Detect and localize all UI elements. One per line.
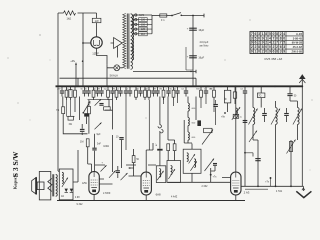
capacitor xyxy=(129,86,131,90)
wire xyxy=(88,147,92,172)
resistor xyxy=(66,86,68,90)
resistor xyxy=(163,86,165,90)
capacitor xyxy=(168,86,170,90)
svg-text:F 1: F 1 xyxy=(161,19,165,22)
svg-text:2: 2 xyxy=(258,41,260,45)
svg-text:3: 3 xyxy=(258,32,260,36)
wire xyxy=(168,97,175,141)
svg-text:1: 1 xyxy=(254,50,256,54)
wire speaker loop xyxy=(39,172,51,200)
svg-text:ZW·2·85: ZW·2·85 xyxy=(292,50,303,54)
svg-text:9: 9 xyxy=(262,41,264,45)
coil L4 tuning xyxy=(276,108,278,125)
capacitor xyxy=(112,86,114,90)
tube V4 output xyxy=(231,172,241,195)
wire xyxy=(105,97,113,130)
svg-text:110: 110 xyxy=(141,33,146,36)
tube V2 AF xyxy=(89,172,99,195)
svg-text:7Ω: 7Ω xyxy=(56,109,59,112)
node xyxy=(135,85,137,87)
resistor R15 xyxy=(233,114,239,118)
wire xyxy=(88,100,90,134)
wire xyxy=(94,195,236,201)
capacitor xyxy=(185,86,187,90)
wire xyxy=(113,135,122,172)
svg-text:4: 4 xyxy=(283,32,285,36)
coil L1a xyxy=(188,103,189,111)
capacitor C12 xyxy=(213,163,217,164)
trimmer xyxy=(95,123,102,130)
svg-text:2: 2 xyxy=(262,50,264,54)
capacitor C2 16uF xyxy=(189,55,197,56)
wire xyxy=(241,185,304,187)
resistor xyxy=(135,86,137,90)
wire xyxy=(126,97,149,151)
node xyxy=(270,177,272,179)
trimmer xyxy=(293,109,302,125)
svg-text:2 A3: 2 A3 xyxy=(244,190,250,194)
svg-text:9: 9 xyxy=(251,41,253,45)
svg-text:SKALA: SKALA xyxy=(110,73,119,77)
svg-text:8: 8 xyxy=(280,36,282,40)
speck xyxy=(8,58,9,59)
svg-text:5nF: 5nF xyxy=(97,143,102,145)
capacitor xyxy=(120,86,122,90)
capacitor xyxy=(61,86,63,90)
svg-text:2: 2 xyxy=(276,45,278,49)
svg-text:9: 9 xyxy=(269,50,271,54)
resistor xyxy=(148,86,150,90)
capacitor C17 xyxy=(243,120,248,121)
wire xyxy=(75,97,80,121)
node xyxy=(111,85,113,87)
capacitor C14 xyxy=(262,113,267,114)
node xyxy=(75,85,77,87)
svg-text:S 3 S/W: S 3 S/W xyxy=(11,151,20,177)
svg-text:3: 3 xyxy=(283,45,285,49)
resistor R8 xyxy=(132,156,135,163)
svg-text:9: 9 xyxy=(283,50,285,54)
svg-text:7: 7 xyxy=(276,41,278,45)
node xyxy=(159,85,161,87)
node xyxy=(220,85,222,87)
capacitor xyxy=(153,86,155,90)
svg-text:6: 6 xyxy=(280,45,282,49)
resistor xyxy=(70,86,72,90)
IF transformer Tr1 xyxy=(156,166,166,183)
bus main HT rail xyxy=(56,85,304,87)
capacitor C13 xyxy=(287,93,292,94)
resistor xyxy=(173,86,175,90)
svg-text:1Ω: 1Ω xyxy=(61,196,64,198)
svg-text:1kΩ: 1kΩ xyxy=(67,17,72,21)
tube V3 mixer xyxy=(141,172,151,195)
capacitor C16 xyxy=(255,158,260,159)
node xyxy=(257,85,259,87)
svg-text:2: 2 xyxy=(280,32,282,36)
wire xyxy=(94,151,96,172)
svg-text:RV6 358 +4Z: RV6 358 +4Z xyxy=(265,57,283,61)
svg-text:5: 5 xyxy=(254,36,256,40)
svg-text:0: 0 xyxy=(273,32,275,36)
svg-text:2 3Z2: 2 3Z2 xyxy=(202,186,209,188)
trimmer xyxy=(109,171,116,178)
wire xyxy=(235,86,237,172)
node +9s xyxy=(224,112,226,114)
node xyxy=(59,85,61,87)
voltage selector arrow xyxy=(114,38,123,49)
resistor xyxy=(93,86,95,90)
node xyxy=(95,85,97,87)
svg-text:0: 0 xyxy=(265,45,267,49)
svg-text:2: 2 xyxy=(251,45,253,49)
coil L1b xyxy=(188,118,189,126)
box output stage xyxy=(59,169,73,200)
svg-text:am Netz: am Netz xyxy=(200,44,210,47)
svg-text:2: 2 xyxy=(273,45,275,49)
trimmer xyxy=(121,173,128,180)
svg-text:4 7Ω1: 4 7Ω1 xyxy=(276,191,283,193)
switch S1 xyxy=(172,13,181,16)
svg-text:3: 3 xyxy=(251,36,253,40)
svg-text:4: 4 xyxy=(269,41,271,45)
svg-text:7: 7 xyxy=(280,41,282,45)
svg-text:3: 3 xyxy=(280,50,282,54)
svg-text:45·2·3Z: 45·2·3Z xyxy=(293,45,303,49)
svg-text:220: 220 xyxy=(141,19,146,22)
svg-text:16μF: 16μF xyxy=(198,56,204,59)
transformer T2 output xyxy=(48,178,52,191)
svg-text:125: 125 xyxy=(141,28,146,31)
svg-text:4 A4Z: 4 A4Z xyxy=(171,195,178,198)
svg-text:0: 0 xyxy=(265,50,267,54)
node xyxy=(171,85,173,87)
tube V1 rectifier xyxy=(91,37,102,48)
wire xyxy=(192,16,194,87)
svg-text:8: 8 xyxy=(262,45,264,49)
resistor R5 xyxy=(87,106,90,113)
capacitor xyxy=(177,86,179,90)
svg-text:7Ω: 7Ω xyxy=(258,96,261,98)
node xyxy=(147,85,149,87)
terminal xyxy=(203,14,205,18)
svg-text:6: 6 xyxy=(254,32,256,36)
node xyxy=(244,85,246,87)
capacitor C9 xyxy=(119,137,123,138)
svg-text:8: 8 xyxy=(258,45,260,49)
svg-text:5: 5 xyxy=(269,32,271,36)
switch S2 xyxy=(83,101,90,113)
node xyxy=(274,85,276,87)
svg-text:2: 2 xyxy=(254,45,256,49)
node xyxy=(195,85,197,87)
svg-text:1C: 1C xyxy=(66,89,69,91)
resistor xyxy=(116,86,118,90)
trimmer xyxy=(249,109,258,125)
resistor R3 xyxy=(62,107,65,114)
trimmer xyxy=(95,99,101,105)
svg-text:+Pu: +Pu xyxy=(70,59,75,63)
transformer T1 primary xyxy=(123,14,126,69)
coil L1c xyxy=(188,132,189,140)
svg-text:6A8: 6A8 xyxy=(156,192,161,196)
wire xyxy=(181,15,204,17)
capacitor C8 xyxy=(92,148,96,149)
svg-text:0: 0 xyxy=(258,36,260,40)
capacitor xyxy=(97,86,99,90)
wire xyxy=(62,97,64,107)
node xyxy=(290,85,292,87)
trimmer xyxy=(271,109,280,125)
svg-text:2: 2 xyxy=(265,41,267,45)
svg-text:L7WF: L7WF xyxy=(103,191,111,195)
svg-text:3·80·45: 3·80·45 xyxy=(293,36,303,40)
svg-text:9 322: 9 322 xyxy=(77,203,84,206)
svg-text:5: 5 xyxy=(283,41,285,45)
svg-text:9: 9 xyxy=(262,36,264,40)
svg-text:9μF: 9μF xyxy=(97,134,102,136)
wire xyxy=(146,143,153,172)
wire xyxy=(97,48,108,65)
svg-text:8: 8 xyxy=(276,32,278,36)
transformer T1 core xyxy=(127,14,129,69)
transformer taps xyxy=(133,14,152,16)
resistor xyxy=(107,86,109,90)
bus ground rail xyxy=(57,200,245,202)
wire xyxy=(152,15,160,17)
resistor xyxy=(213,86,215,90)
lamp SKALA xyxy=(114,65,120,71)
svg-text:4: 4 xyxy=(269,36,271,40)
wire xyxy=(58,150,78,182)
resistor R14 xyxy=(233,92,236,98)
heater wire xyxy=(133,71,196,73)
wire xyxy=(58,12,97,14)
svg-text:1W: 1W xyxy=(95,19,99,23)
svg-text:6: 6 xyxy=(254,41,256,45)
node xyxy=(207,85,209,87)
svg-text:7: 7 xyxy=(273,36,275,40)
node xyxy=(184,85,186,87)
wire xyxy=(244,97,246,187)
svg-text:16μF: 16μF xyxy=(198,29,204,32)
resistor R1 xyxy=(64,11,76,15)
coil L5 tuning xyxy=(297,108,299,125)
ground xyxy=(302,186,304,191)
coil L3 tuning xyxy=(253,108,255,125)
wire xyxy=(63,114,87,134)
resistor R13 xyxy=(173,144,176,151)
transformer T1 secondary xyxy=(131,14,133,70)
svg-text:150: 150 xyxy=(141,23,146,26)
resistor R7 xyxy=(86,139,89,147)
svg-text:0: 0 xyxy=(258,50,260,54)
node xyxy=(210,174,212,176)
wire xyxy=(67,100,75,116)
wire xyxy=(168,166,231,183)
wire xyxy=(184,97,196,144)
wire xyxy=(151,15,153,34)
wire xyxy=(160,97,168,166)
wire xyxy=(260,86,262,107)
svg-text:0: 0 xyxy=(276,36,278,40)
antenna xyxy=(301,75,303,87)
svg-text:4W3: 4W3 xyxy=(139,13,145,17)
trimmer xyxy=(249,131,257,143)
svg-text:90·W·28: 90·W·28 xyxy=(292,41,303,45)
svg-text:0: 0 xyxy=(283,36,285,40)
resistor R4 xyxy=(68,116,73,120)
node xyxy=(123,85,125,87)
capacitor xyxy=(101,86,103,90)
svg-text:7: 7 xyxy=(251,32,253,36)
svg-text:0: 0 xyxy=(251,50,253,54)
resistor R10 xyxy=(258,93,265,98)
IF transformer Tr3 xyxy=(183,149,201,173)
svg-text:100Ω: 100Ω xyxy=(103,145,109,148)
resistor xyxy=(144,86,146,90)
wire xyxy=(129,168,142,176)
node xyxy=(301,85,303,87)
wire xyxy=(187,97,189,144)
svg-text:8: 8 xyxy=(276,50,278,54)
capacitor C5 xyxy=(84,113,89,116)
box oscillator coil xyxy=(224,90,230,103)
capacitor C11 xyxy=(157,149,162,151)
fuse F1 xyxy=(160,14,167,17)
wire xyxy=(222,177,231,179)
wire xyxy=(83,42,91,44)
capacitor xyxy=(140,86,142,90)
resistor R2 xyxy=(92,18,101,22)
wire xyxy=(88,98,113,100)
wire xyxy=(99,179,112,184)
coil L2 xyxy=(236,108,238,118)
capacitor C6 xyxy=(99,103,103,104)
connector xyxy=(158,125,163,133)
wire xyxy=(186,47,193,70)
capacitor C7 xyxy=(80,129,85,130)
resistor R12 xyxy=(167,144,170,151)
wire xyxy=(82,60,84,62)
node xyxy=(244,152,246,154)
trimmer xyxy=(205,159,215,172)
capacitor xyxy=(244,86,246,90)
capacitor C10 xyxy=(116,170,120,171)
wire xyxy=(96,13,98,37)
svg-text:2: 2 xyxy=(273,41,275,45)
resistor R6 xyxy=(104,107,111,110)
wire xyxy=(107,65,123,86)
wire xyxy=(191,144,193,183)
svg-text:1: 1 xyxy=(265,36,267,40)
capacitor xyxy=(157,86,159,90)
svg-text:0: 0 xyxy=(269,45,271,49)
node xyxy=(82,85,84,87)
capacitor xyxy=(88,86,90,90)
resistor xyxy=(200,86,202,90)
svg-text:1: 1 xyxy=(262,32,264,36)
wire B+ line xyxy=(60,78,197,86)
svg-text:1Ω: 1Ω xyxy=(104,89,107,91)
capacitor xyxy=(84,86,86,90)
wire xyxy=(57,13,59,171)
capacitor xyxy=(125,86,127,90)
capacitor C15 xyxy=(284,113,289,114)
svg-text:1ZW: 1ZW xyxy=(82,183,88,185)
speaker LS xyxy=(32,178,37,195)
capacitor C19 xyxy=(213,104,218,105)
resistor R11 xyxy=(289,142,292,152)
svg-text:1ZFF: 1ZFF xyxy=(92,52,99,56)
svg-text:1M: 1M xyxy=(80,140,83,143)
wire xyxy=(301,86,303,186)
node xyxy=(235,85,237,87)
capacitor xyxy=(205,86,207,90)
capacitor C1 16uF xyxy=(189,28,197,29)
capacitor C18 xyxy=(197,120,201,126)
svg-text:Kapsch: Kapsch xyxy=(13,174,18,189)
IF transformer Tr2 xyxy=(167,161,181,183)
node xyxy=(257,185,259,187)
wire xyxy=(253,140,291,186)
svg-text:4 98: 4 98 xyxy=(75,197,80,199)
wire xyxy=(164,97,215,113)
trimmer xyxy=(202,130,213,145)
wire xyxy=(95,164,156,166)
voltage table xyxy=(250,32,303,54)
svg-text:8: 8 xyxy=(265,32,267,36)
resistor xyxy=(74,86,76,90)
wire xyxy=(290,86,297,107)
svg-text:A·Z2: A·Z2 xyxy=(296,32,302,36)
wire xyxy=(82,13,84,86)
wire xyxy=(167,15,172,17)
trimmer xyxy=(101,165,107,171)
svg-text:6: 6 xyxy=(273,50,275,54)
resistor R9 xyxy=(204,128,212,132)
